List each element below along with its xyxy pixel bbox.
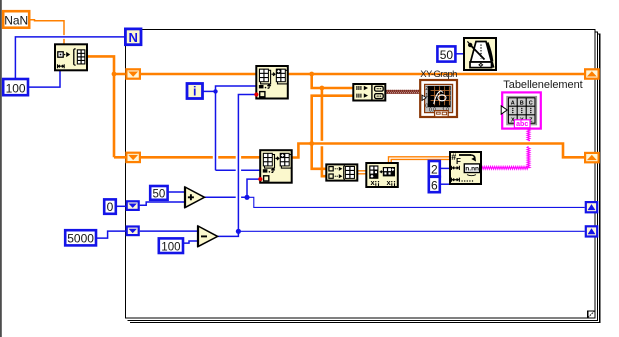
node shift register right 1 (orange): [584, 68, 600, 80]
node constant 2: [429, 161, 440, 177]
node constant 5000: [65, 230, 96, 246]
node constant 6: [429, 177, 440, 193]
svg-text:100: 100: [6, 81, 26, 95]
wire i to Replace Array Subset 1 index: [216, 86, 257, 91]
wire i down to Replace Array Subset 2 index (gap at crossing): [216, 91, 261, 170]
node wire junction dot: [244, 195, 249, 200]
wire Initialize Array output to left shift registers: [87, 56, 126, 157]
wire Add output (gap at crossing): [205, 196, 248, 198]
node Wait Until Next ms Multiple: [464, 38, 496, 70]
node shift register right 3 (blue): [585, 201, 599, 213]
node Replace Array Subset 1: [256, 66, 288, 99]
node coercion dot RAS1: [254, 92, 258, 96]
wire 2D array Build Array to Index Array: [357, 171, 366, 174]
wire shift register 2 to Replace Array Subset 2 (gaps at blue crossings): [141, 156, 260, 159]
wire Subtract output to right shift register 4: [238, 230, 584, 232]
svg-text:2: 2: [425, 86, 428, 92]
node shift register left 4 (blue): [126, 225, 140, 236]
wire Replace Array Subset 2 output to right shift register 2: [292, 144, 584, 158]
wire Replace Array Subset 1 output to right shift register 1: [288, 73, 584, 76]
wire cluster Bundle to XY-Graph: [385, 90, 420, 93]
node shift register right 4 (blue): [585, 225, 599, 237]
node iteration terminal i: [187, 84, 203, 99]
wire 50 to Wait Until Next ms Multiple: [456, 53, 465, 55]
wire shift register 3 to Add input: [140, 202, 185, 205]
wire 100 to Initialize Array dimension size: [28, 70, 60, 87]
wire NaN to Initialize Array: [30, 20, 65, 45]
node Index Array: [366, 163, 398, 187]
node constant NaN: [3, 11, 29, 28]
node wire junction dot: [213, 89, 217, 93]
node constant 50 (wait): [437, 46, 455, 62]
node wire junction dot: [320, 86, 325, 91]
wire 50 to Add input: [168, 191, 186, 193]
wire Subtract output up to Replace Array Subset 1 element: [218, 95, 257, 237]
node Initialize Array: [55, 44, 87, 70]
wire branch to Bundle input 1: [312, 74, 354, 88]
wire string Number To Fractional String to Tabellenelement: [481, 166, 529, 169]
svg-text:C: C: [529, 100, 533, 106]
wire 0 to left shift register 3: [116, 205, 126, 207]
svg-text:5000: 5000: [67, 232, 94, 246]
svg-text:abc: abc: [516, 121, 528, 128]
node Build Array: [326, 164, 357, 180]
node Tabellenelement terminal: [501, 92, 541, 128]
svg-text:Tabellenelement: Tabellenelement: [503, 79, 582, 91]
wire 100 to N count terminal: [15, 37, 125, 79]
node shift register left 3 (blue): [126, 200, 140, 211]
svg-text:N: N: [129, 30, 138, 45]
node Add function: [185, 187, 205, 208]
svg-text:50: 50: [440, 48, 454, 62]
wire Bundle input 2 / Build Array input 1 vertical: [312, 96, 354, 169]
wire window left border: [0, 0, 2, 337]
node wire junction dot: [309, 72, 314, 77]
wire 2 to format node: [440, 167, 450, 169]
node Subtract function: [198, 226, 218, 247]
node wire junction dot: [309, 141, 314, 146]
svg-text:XY-Graph: XY-Graph: [420, 69, 457, 80]
node For-Loop corner resize glyph: [588, 311, 595, 318]
node constant 100 (array size): [3, 79, 28, 95]
svg-text:0: 0: [425, 104, 428, 110]
svg-text:n.nn: n.nn: [465, 165, 479, 172]
wire shift register 4 to Subtract input: [140, 230, 198, 232]
svg-text:6: 6: [431, 178, 438, 192]
node For-Loop frame: [126, 30, 600, 323]
svg-text:i: i: [193, 84, 196, 98]
svg-text:2: 2: [431, 163, 438, 177]
svg-text:NaN: NaN: [4, 14, 28, 28]
node constant 50 (add): [150, 186, 167, 200]
wire branch down to Build Array input 2 (gap at crossing): [321, 88, 324, 141]
node coercion dot RAS2: [258, 177, 262, 181]
node constant 0: [104, 199, 116, 214]
wire shift register 1 to Replace Array Subset 1: [141, 73, 256, 76]
wire 5000 to left shift register 4: [96, 231, 126, 238]
svg-text:50: 50: [153, 188, 166, 200]
node shift register left 1 (orange): [125, 68, 141, 80]
wire Add output up to Replace Array Subset 2 element: [247, 179, 260, 197]
node Replace Array Subset 2: [260, 150, 292, 183]
node Bundle: [353, 84, 385, 101]
svg-text:F: F: [456, 157, 461, 166]
node wire junction dot: [236, 229, 241, 234]
wire 100 to Subtract input: [183, 241, 198, 243]
node Number To Fractional String: [450, 152, 481, 184]
svg-text:B: B: [520, 100, 524, 106]
node constant 100 (subtract): [159, 238, 183, 253]
wire iteration terminal i output: [203, 90, 216, 92]
node loop count terminal N: [125, 29, 141, 45]
wire 2D array Index Array to Number To Fractional String: [389, 157, 451, 163]
wire 6 to format node: [440, 183, 450, 185]
svg-text:100: 100: [161, 241, 180, 253]
svg-text:A: A: [511, 100, 515, 106]
node wire junction dot: [112, 72, 117, 77]
node shift register right 2 (orange): [584, 152, 600, 164]
wire Add output to right shift register 3: [247, 197, 585, 207]
node XY-Graph terminal: [420, 80, 457, 117]
svg-text:0: 0: [107, 200, 114, 214]
node shift register left 2 (orange): [125, 152, 141, 164]
